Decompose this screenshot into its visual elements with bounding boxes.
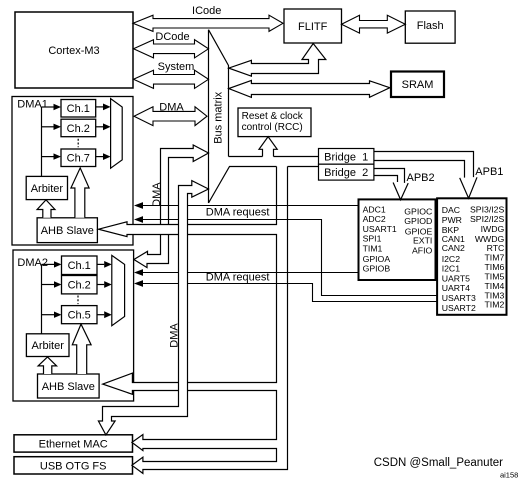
label DMA2	[17, 257, 48, 269]
watermark CSDN	[374, 457, 503, 469]
svg-text:AHB Slave: AHB Slave	[41, 225, 94, 237]
DCode double arrow Cortex to bus matrix	[134, 40, 209, 58]
DMA2 channel Ch.2 box	[62, 276, 98, 294]
outline bus bus-matrix to FLITF with two open arrowheads	[229, 44, 326, 77]
wire DMA2 Ch.1 to mux	[97, 261, 112, 268]
svg-text:Ch.7: Ch.7	[67, 153, 90, 165]
label AHB Slave DMA2	[42, 381, 95, 393]
SRAM box	[391, 72, 444, 98]
open up-arrow into RCC	[259, 137, 277, 157]
label System	[158, 61, 195, 73]
DMA2 AHB Slave box	[38, 374, 100, 398]
svg-text:RTC: RTC	[487, 243, 505, 253]
svg-text:DMA request: DMA request	[206, 206, 270, 218]
wire DMA2 Ch.5 to mux	[97, 311, 112, 318]
DMA2 outer box	[13, 250, 134, 401]
Ethernet MAC box	[14, 435, 133, 452]
AHB channel bottom line right segment to Bridge 2	[288, 166, 319, 168]
svg-text:Reset & clock: Reset & clock	[242, 111, 304, 122]
svg-text:SRAM: SRAM	[402, 79, 434, 91]
label DMA request 2	[206, 272, 270, 284]
svg-text:ICode: ICode	[192, 5, 221, 17]
label Ethernet MAC	[39, 438, 108, 450]
svg-text:Bus matrix: Bus matrix	[213, 91, 225, 143]
svg-text:Ch.1: Ch.1	[68, 260, 91, 272]
svg-text:FLITF: FLITF	[298, 21, 328, 33]
label Ch.2	[67, 123, 90, 135]
svg-text:I2C1: I2C1	[442, 264, 461, 274]
svg-text:ADC2: ADC2	[363, 214, 386, 224]
svg-text:Arbiter: Arbiter	[31, 183, 64, 195]
bus matrix left edge	[208, 30, 210, 203]
label Bridge 2	[324, 167, 368, 179]
Bridge1 to APB1 double line	[374, 152, 474, 178]
DMA request wire 1 from APB2 peripherals to DMA1	[134, 202, 359, 209]
svg-text:APB2: APB2	[407, 172, 435, 184]
DMA1 Arbiter box	[26, 176, 67, 199]
APB1 peripherals box	[437, 198, 506, 314]
double arrow FLITF to Flash	[342, 15, 406, 33]
svg-text:UART4: UART4	[442, 283, 470, 293]
AHB channel top line left segment	[229, 156, 263, 158]
DMA1 channel Ch.7 box	[61, 149, 96, 167]
label DMA horizontal	[159, 102, 184, 114]
svg-text:APB1: APB1	[475, 166, 503, 178]
label Ch.1 DMA2	[68, 260, 91, 272]
Cortex-M3 block	[15, 12, 133, 88]
svg-text:Ethernet MAC: Ethernet MAC	[39, 438, 108, 450]
APB1 peripheral list left column	[442, 205, 476, 313]
wire Ch.2 to mux	[96, 123, 111, 130]
label DMA rotated 2	[168, 323, 180, 348]
DMA request wire 2 from APB1 peripherals to DMA1	[134, 216, 437, 295]
APB2 open V arrowhead	[393, 183, 408, 200]
svg-text:CSDN @Small_Peanuter: CSDN @Small_Peanuter	[374, 457, 503, 469]
svg-text:UART5: UART5	[442, 273, 470, 283]
DMA1 AHB Slave box	[37, 218, 97, 243]
svg-text:GPIOB: GPIOB	[363, 263, 391, 273]
label DMA rotated 1	[151, 182, 163, 207]
svg-text:TIM6: TIM6	[485, 262, 505, 272]
svg-text:Cortex-M3: Cortex-M3	[48, 45, 99, 57]
DMA2 channel Ch.5 box	[62, 306, 98, 324]
wire arbiter to DMA2 Ch.2	[42, 281, 62, 287]
APB2 peripheral list right column	[404, 207, 432, 256]
label Arbiter DMA1	[31, 183, 64, 195]
svg-text:DMA request: DMA request	[206, 272, 270, 284]
svg-text:IWDG: IWDG	[481, 224, 505, 234]
svg-text:DMA: DMA	[159, 102, 184, 114]
svg-text:AHB Slave: AHB Slave	[42, 381, 95, 393]
svg-text:Ch.2: Ch.2	[68, 280, 91, 292]
DMA2 open up-arrow AHB slave to Ch.5	[72, 324, 91, 374]
svg-text:TIM5: TIM5	[485, 271, 505, 281]
svg-text:TIM4: TIM4	[485, 281, 505, 291]
Flash box	[405, 11, 455, 43]
DMA1 channel Ch.1 box	[61, 100, 96, 118]
DMA2 master bus: arrow into bus matrix and down-arrow into Ethernet MAC	[98, 181, 208, 435]
svg-text:SPI3/I2S: SPI3/I2S	[470, 204, 504, 214]
DMA1 master bus: arrow into bus matrix and branch arrow into DMA2	[134, 145, 209, 268]
APB2 peripherals box	[359, 199, 436, 280]
DMA1 channel mux funnel	[111, 99, 123, 169]
svg-text:ai158: ai158	[500, 470, 518, 478]
DMA1 open up-arrow AHB slave to Arbiter	[37, 200, 55, 218]
label DCode	[155, 31, 189, 43]
label Ch.5 DMA2	[68, 310, 91, 322]
svg-text:TIM7: TIM7	[485, 252, 505, 262]
svg-text:Bridge 2: Bridge 2	[324, 167, 368, 179]
svg-text:Ch.2: Ch.2	[67, 123, 90, 135]
svg-text:Ch.1: Ch.1	[67, 103, 90, 115]
svg-text:USART2: USART2	[442, 303, 476, 313]
DMA1 outer box	[12, 97, 133, 246]
svg-text:Ch.5: Ch.5	[68, 310, 91, 322]
svg-text:SPI1: SPI1	[363, 234, 382, 244]
svg-text:System: System	[158, 61, 195, 73]
svg-text:DMA: DMA	[151, 182, 163, 207]
DMA request wire 4 from APB1 peripherals to DMA2	[134, 280, 437, 301]
wire arbiter to DMA2 Ch.1	[42, 261, 62, 267]
DMA request wire 3 from APB2 peripherals to DMA2	[134, 269, 359, 276]
wire DMA2 Ch.2 to mux	[97, 281, 112, 288]
label AHB Slave DMA1	[41, 225, 94, 237]
svg-text:DMA: DMA	[168, 323, 180, 348]
svg-text:EXTI: EXTI	[413, 236, 432, 246]
svg-text:I2C2: I2C2	[442, 254, 461, 264]
svg-text:SPI2/I2S: SPI2/I2S	[470, 214, 504, 224]
DMA2 channel mux funnel	[112, 255, 125, 325]
svg-text:GPIOD: GPIOD	[404, 216, 432, 226]
Bridge 2 box	[319, 164, 374, 180]
Bridge 1 box	[319, 149, 374, 165]
label Ch.7	[67, 153, 90, 165]
watermark ai158	[500, 470, 518, 478]
wire arbiter to DMA2 Ch.5	[42, 312, 62, 318]
svg-text:control (RCC): control (RCC)	[242, 122, 303, 133]
wire Ch.1 to mux	[96, 104, 111, 111]
svg-text:TIM2: TIM2	[485, 299, 505, 309]
DMA2 channel Ch.1 box	[62, 256, 98, 275]
label Flash	[417, 20, 444, 32]
outline double arrow bus-matrix to SRAM	[229, 80, 390, 97]
DMA1 dashed line between Ch.2 and Ch.7	[77, 139, 79, 148]
label APB1	[475, 166, 503, 178]
svg-text:Bridge 1: Bridge 1	[324, 151, 368, 163]
svg-text:ADC1: ADC1	[363, 204, 386, 214]
svg-text:CAN2: CAN2	[442, 243, 465, 253]
label Ch.2 DMA2	[68, 280, 91, 292]
svg-text:DCode: DCode	[155, 31, 189, 43]
svg-text:DAC: DAC	[442, 205, 460, 215]
wire Ch.7 to mux	[96, 153, 111, 160]
svg-text:TIM1: TIM1	[363, 243, 383, 253]
FLITF box	[284, 9, 342, 43]
svg-text:AFIO: AFIO	[412, 245, 433, 255]
DMA2 open up-arrow AHB slave to Arbiter	[38, 357, 57, 374]
APB2 peripheral list left column	[363, 204, 397, 273]
label Ch.1	[67, 103, 90, 115]
DMA2 Arbiter box	[26, 334, 69, 357]
label Bus matrix rotated	[213, 91, 225, 143]
APB1 peripheral list right column	[470, 204, 505, 309]
DMA double arrow DMA1 to bus matrix	[134, 107, 207, 126]
label ICode	[192, 5, 221, 17]
wire arbiter to Ch.2	[42, 124, 62, 130]
DMA1 open up-arrow AHB slave to Ch.7	[71, 168, 89, 218]
System double arrow Cortex to bus matrix	[134, 70, 209, 88]
label Bridge 1	[324, 151, 368, 163]
label Cortex-M3	[48, 45, 99, 57]
DMA2 arbiter feed trunk wire	[41, 264, 43, 333]
label Reset and clock control RCC line 1	[242, 111, 304, 122]
ICode double arrow Cortex to FLITF	[133, 15, 283, 31]
label FLITF	[298, 21, 328, 33]
Bridge2 to APB2 double line	[374, 169, 405, 183]
label DMA1	[17, 99, 48, 111]
wire arbiter to Ch.1	[42, 104, 62, 110]
AHB channel top line right segment to Bridge 1	[274, 156, 319, 158]
label APB2	[407, 172, 435, 184]
wire arbiter to Ch.7	[42, 153, 62, 159]
bus matrix bottom diagonal and AHB channel bottom line left segment	[209, 167, 277, 204]
DMA1 channel Ch.2 box	[61, 119, 96, 137]
DMA1 arbiter feed trunk wire	[41, 107, 43, 176]
svg-text:USB OTG FS: USB OTG FS	[40, 460, 107, 472]
USB OTG FS box	[14, 457, 133, 474]
label DMA request 1	[206, 206, 270, 218]
label Reset and clock control RCC line 2	[242, 122, 303, 133]
svg-text:Flash: Flash	[417, 20, 444, 32]
svg-text:DMA2: DMA2	[17, 257, 48, 269]
DMA2 dashed line between Ch.2 and Ch.5	[77, 296, 79, 305]
Reset and clock control RCC box	[238, 108, 311, 137]
label Arbiter DMA2	[31, 340, 64, 352]
AHB system bus: verticals with branch arrows into DMA1 AHB slave, DMA2 AHB slave, Ethernet MAC and USB OTG FS	[99, 167, 288, 474]
APB1 open V arrowhead	[460, 177, 477, 198]
bus matrix top diagonal and right edge	[209, 30, 229, 157]
label USB OTG FS	[40, 460, 107, 472]
svg-text:USART3: USART3	[442, 293, 476, 303]
svg-text:PWR: PWR	[442, 215, 462, 225]
svg-text:DMA1: DMA1	[17, 99, 48, 111]
svg-text:Arbiter: Arbiter	[31, 340, 64, 352]
label SRAM	[402, 79, 434, 91]
